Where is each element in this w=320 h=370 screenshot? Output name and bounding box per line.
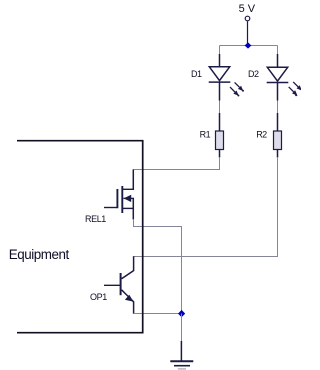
collector vertical — [133, 256, 135, 271]
wire rail to D1 — [219, 46, 221, 56]
svg-text:OP1: OP1 — [90, 292, 107, 302]
wire D1 to R1 — [219, 101, 221, 115]
transistor OP1 (NPN) — [104, 256, 134, 314]
bulk arrow — [124, 195, 132, 202]
emitter vertical — [133, 301, 135, 313]
wire junction to ground — [181, 314, 183, 342]
wire OP1 emitter to bottom junction — [134, 313, 182, 315]
gate pin wire — [104, 207, 117, 209]
node top junction — [245, 42, 252, 48]
collector diagonal — [122, 271, 134, 279]
wire terminal to top junction — [247, 21, 249, 45]
wire R1 to REL1 drain — [133, 157, 220, 170]
source stub — [122, 207, 134, 209]
svg-text:REL1: REL1 — [85, 214, 106, 224]
emitter diagonal — [122, 290, 134, 302]
svg-text:5 V: 5 V — [239, 3, 256, 15]
wire REL1 source to bottom junction — [134, 219, 182, 314]
channel bar — [121, 186, 123, 213]
transistor REL1 (MOSFET) — [104, 170, 134, 220]
diode D1 (LED) — [209, 54, 244, 101]
svg-text:Equipment: Equipment — [9, 247, 70, 262]
ground — [170, 341, 193, 369]
drain stub — [122, 188, 134, 190]
drain jog vertical — [132, 170, 134, 190]
bulk line — [124, 197, 135, 199]
wire R2 down to OP1 collector — [134, 157, 278, 257]
svg-text:R2: R2 — [256, 129, 267, 139]
equipment box — [17, 141, 143, 333]
svg-text:D2: D2 — [248, 69, 259, 79]
base pin wire — [104, 284, 121, 286]
wire rail to D2 — [277, 46, 279, 56]
resistor R1 — [216, 113, 224, 158]
base bar — [120, 273, 122, 295]
wire D2 to R2 — [277, 101, 279, 115]
resistor R2 — [274, 113, 282, 158]
emitter arrowhead — [125, 295, 133, 302]
node bottom junction — [178, 310, 185, 317]
svg-text:D1: D1 — [191, 69, 202, 79]
power terminal 5V circle — [245, 16, 250, 21]
wire 5V rail horizontal — [220, 45, 278, 47]
svg-text:R1: R1 — [200, 130, 211, 140]
diode D2 (LED) — [267, 54, 302, 101]
source vertical — [132, 198, 134, 219]
gate plate — [116, 189, 118, 208]
